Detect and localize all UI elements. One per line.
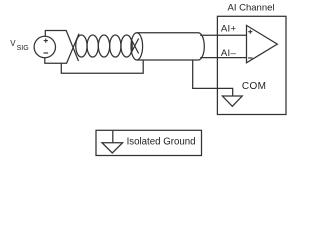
ground symbol at COM	[222, 96, 242, 106]
legend box	[96, 130, 202, 155]
wire AI-	[200, 57, 246, 59]
twisted pair crossing at shield entry	[131, 39, 139, 54]
twisted pair loop 3	[98, 35, 109, 57]
isolated ground symbol in legend	[102, 131, 123, 153]
svg-text:V: V	[10, 39, 16, 48]
svg-text:AI–: AI–	[221, 48, 237, 59]
wire top lead from source to twisted pair	[45, 31, 78, 62]
wire bottom lead from source to twisted pair	[45, 34, 79, 64]
cable shield cylinder	[131, 33, 204, 60]
wire shield to COM ground	[193, 60, 233, 96]
twisted pair loop 1	[76, 35, 87, 57]
svg-text:AI+: AI+	[221, 24, 237, 35]
twisted pair loop 4	[110, 35, 121, 57]
op-amp U1	[247, 25, 278, 62]
label VSIG	[10, 39, 28, 52]
svg-text:COM: COM	[242, 81, 266, 92]
svg-text:SIG: SIG	[17, 45, 29, 52]
voltage source VSIG	[34, 36, 55, 57]
svg-text:AI Channel: AI Channel	[228, 3, 275, 14]
svg-text:Isolated Ground: Isolated Ground	[127, 136, 196, 147]
wire AI+	[200, 34, 246, 36]
twisted pair loop 5	[121, 35, 132, 57]
twisted pair loop 2	[87, 35, 98, 57]
AI Channel box	[217, 16, 286, 114]
wire shield to source common	[61, 60, 143, 73]
